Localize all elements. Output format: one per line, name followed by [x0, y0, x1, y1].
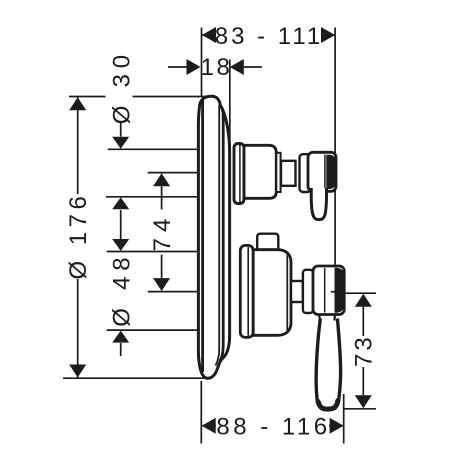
- extension line: stem top (30 top): [108, 148, 200, 150]
- dimension line 83-111: [202, 34, 335, 36]
- dimension line O30/O48 stems: [120, 122, 122, 356]
- lower sleeve flange: [240, 245, 253, 337]
- arrowhead O30 top: [112, 137, 129, 149]
- extension line: plate bottom tangent (176 bottom): [63, 377, 204, 379]
- dimension texts: [65, 23, 378, 441]
- dimension line 74 stems: [161, 186, 163, 278]
- lower collar: [303, 270, 313, 313]
- dimension line 18 tails: [168, 66, 262, 68]
- lower top button: [240, 234, 344, 409]
- halo O30 gap in ext line: [106, 54, 133, 123]
- svg-text:73: 73: [351, 334, 378, 367]
- extension line: stem bottom (30 bottom): [106, 196, 199, 198]
- dimension line 88-116: [202, 425, 344, 427]
- dimension line 73 stems: [362, 307, 364, 395]
- svg-text:18: 18: [201, 54, 233, 81]
- svg-text:88 - 116: 88 - 116: [216, 414, 330, 441]
- arrowhead 73 bottom: [355, 395, 372, 408]
- lower hub body: [253, 250, 291, 336]
- lever neck lines: [319, 314, 336, 321]
- halo 88-116: [216, 415, 329, 436]
- arrowhead 83-111 left: [202, 27, 216, 43]
- upper knob black front: [326, 155, 336, 189]
- upper knob body: [308, 152, 336, 191]
- lever knob face inner line: [324, 268, 326, 313]
- halo O176: [66, 194, 89, 279]
- svg-text:Ø 30: Ø 30: [109, 49, 136, 124]
- arrowhead 73 top: [355, 294, 372, 307]
- arrowhead 83-111 right: [321, 27, 335, 43]
- arrowhead O176 bottom: [69, 365, 86, 378]
- upper spoke: [311, 188, 326, 220]
- lever knob body: [313, 266, 344, 315]
- extension line: handle front (right of 83-111): [334, 28, 336, 293]
- arrowhead O48 bottom: [112, 331, 129, 343]
- arrowhead 88-116 left: [202, 418, 216, 434]
- dimension line O176: [77, 97, 79, 377]
- arrowhead O176 top: [69, 97, 86, 110]
- extension line: lever front (right of 88-116): [343, 394, 345, 444]
- extension line: hub top (48 top): [107, 251, 200, 253]
- arrowhead 74 bottom: [153, 278, 170, 291]
- upper sleeve flange: [234, 144, 336, 220]
- svg-text:Ø 176: Ø 176: [65, 192, 92, 280]
- plate inner front line 1: [216, 106, 220, 366]
- arrowhead O30 bottom: [112, 197, 129, 209]
- arrowhead 74 top: [153, 173, 170, 186]
- svg-text:Ø 48: Ø 48: [109, 252, 136, 327]
- lever knob black front: [335, 268, 345, 313]
- lever grip bottom cap (thick): [318, 401, 338, 410]
- upper flange inner line: [239, 145, 241, 203]
- svg-text:74: 74: [149, 213, 176, 252]
- extension line: upper axis (74 top): [148, 172, 200, 174]
- arrowhead 88-116 right: [330, 418, 344, 434]
- extension line: lower axis (74 bottom): [148, 291, 199, 293]
- extension line: 73 bottom (lever tip): [344, 408, 376, 410]
- arrowhead 18 right: [230, 59, 244, 75]
- extension line: 18 right: [229, 60, 231, 149]
- upper stem: [281, 161, 296, 186]
- plate inner back rim line: [201, 100, 204, 372]
- upper knob face inner line: [324, 155, 326, 190]
- extension line: hub bottom (48 bottom): [107, 329, 200, 331]
- lower flange inner line: [247, 247, 249, 336]
- escutcheon plate outline: [198, 96, 229, 378]
- extension line: 73 top (lever pivot): [332, 292, 376, 294]
- arrowhead O48 top: [112, 239, 129, 251]
- arrowhead 18 left: [187, 59, 201, 75]
- plate inner front line 2: [220, 108, 223, 362]
- lever arm and grip: [316, 319, 340, 410]
- 73 leader tick inside knob: [331, 291, 344, 293]
- extension line: wall plane bottom (left of 88-116): [200, 381, 202, 444]
- upper collar: [300, 154, 311, 192]
- upper sleeve front rim: [276, 153, 280, 192]
- lower hub end cap line: [286, 252, 288, 334]
- upper sleeve body: [244, 145, 276, 198]
- extension line: wall plane top (left of 83-111): [201, 28, 203, 98]
- svg-text:83 - 111: 83 - 111: [215, 23, 324, 50]
- halo 83-111: [213, 25, 322, 45]
- lower stem: [291, 281, 303, 302]
- extension line: plate top tangent (176 top): [69, 96, 208, 98]
